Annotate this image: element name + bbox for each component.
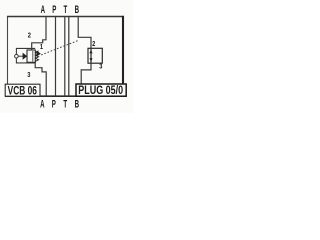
- PLUG 05/0 title box: [76, 84, 126, 96]
- wire port B top to plug square: [78, 17, 91, 48]
- svg-text:3: 3: [99, 63, 103, 71]
- svg-text:B: B: [75, 98, 80, 110]
- gauge circle port: [15, 54, 19, 58]
- svg-text:T: T: [64, 3, 68, 15]
- svg-text:1: 1: [40, 43, 44, 51]
- wire plug square to port B bottom: [81, 63, 91, 84]
- valve body box: [27, 50, 35, 62]
- envelope top wire circle to valve: [16, 48, 35, 54]
- divider between modules: [68, 17, 70, 97]
- svg-text:A: A: [41, 3, 46, 15]
- svg-text:2: 2: [28, 32, 32, 40]
- wire port A top to valve port 2: [32, 17, 46, 50]
- svg-text:3: 3: [27, 72, 31, 80]
- spring: [36, 51, 39, 62]
- plug arrow down: [89, 58, 92, 61]
- svg-text:P: P: [52, 3, 56, 15]
- plug body box: [88, 48, 102, 63]
- module VCB 06 left border: [7, 16, 9, 85]
- module PLUG right border: [122, 16, 124, 97]
- wire port T through-line: [64, 17, 66, 96]
- svg-text:VCB 06: VCB 06: [8, 85, 38, 98]
- wire valve port 3 to port A bottom: [35, 62, 46, 96]
- svg-text:2: 2: [92, 41, 96, 49]
- svg-text:P: P: [52, 98, 56, 110]
- VCB 06 title box: [5, 84, 40, 96]
- valve inner line: [32, 51, 34, 62]
- svg-text:T: T: [63, 98, 67, 110]
- wire circle to check arrow: [18, 55, 23, 57]
- plug arrow up: [89, 50, 92, 53]
- pilot arrow right: [37, 51, 41, 57]
- svg-text:A: A: [40, 98, 45, 110]
- svg-text:PLUG 05/0: PLUG 05/0: [78, 85, 123, 97]
- plug through line: [90, 48, 92, 63]
- background: [0, 0, 133, 113]
- envelope bottom wire circle to valve: [16, 58, 35, 63]
- wire port P through-line: [55, 17, 57, 96]
- check valve arrow left: [23, 53, 28, 60]
- modules bottom border: [5, 95, 127, 97]
- pilot dotted line to plug: [42, 40, 79, 54]
- modules top border: [7, 16, 124, 18]
- svg-text:B: B: [75, 3, 80, 15]
